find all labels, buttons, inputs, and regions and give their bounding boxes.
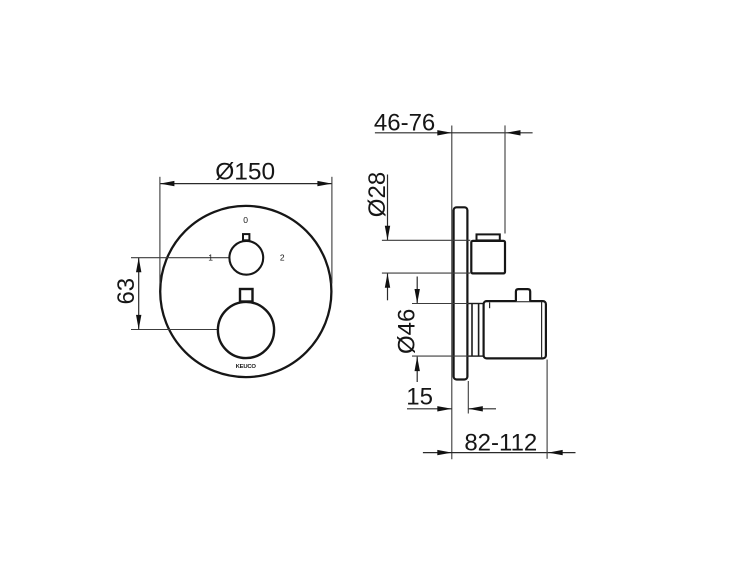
dimension 82-112 right arrow (548, 450, 563, 455)
dimension 63 line (138, 258, 140, 330)
side view: volume knob body (484, 301, 546, 358)
dimension 15 extension line at plate face (467, 381, 469, 414)
side view: volume knob neck ring line 1 (471, 304, 473, 357)
front view: escutcheon plate circle Ø150 (160, 206, 331, 377)
dimension Ø28 down arrow (385, 226, 390, 241)
svg-text:63: 63 (113, 278, 140, 305)
thermostat knob (small top circle) (229, 241, 263, 275)
dimension Ø28 line lower segment (387, 273, 389, 300)
side view: thermostat knob front lip (477, 234, 500, 240)
side view: thermostat knob body (471, 241, 505, 274)
svg-text:2: 2 (280, 253, 285, 263)
dimension Ø28 bottom extension line (382, 272, 470, 274)
dimension Ø46 up arrow (415, 357, 420, 372)
dimension Ø46 down arrow (415, 289, 420, 304)
dimension Ø28 up arrow (385, 273, 390, 288)
dimension 15 left arrow (437, 406, 452, 411)
side view: volume knob indicator tab (516, 289, 530, 301)
dimension 15 left tail line (407, 408, 452, 410)
dimension 46-76 left arrow (437, 130, 452, 135)
centerline through volume knob (ext line for 63) (131, 329, 246, 331)
side view: wall line (451, 126, 453, 460)
side view: volume knob neck bottom edge (469, 355, 485, 357)
svg-text:0: 0 (243, 215, 248, 225)
svg-text:Ø28: Ø28 (364, 172, 391, 217)
dimension 15 right tail line (468, 408, 496, 410)
svg-text:15: 15 (406, 383, 433, 410)
dimension 46-76 right arrow (506, 130, 521, 135)
side view: volume knob seam tick (489, 302, 491, 308)
volume knob indicator tab (240, 289, 253, 302)
dimension 82-112 left arrow (437, 450, 452, 455)
dimension Ø46 line upper segment (416, 277, 418, 304)
dimension Ø28 top extension line (382, 239, 470, 241)
dimension 63 up arrow (136, 258, 141, 273)
dimension Ø150 line (160, 183, 332, 185)
dimension 15 right arrow (468, 406, 483, 411)
dimension Ø28 line upper segment (387, 175, 389, 241)
svg-text:Ø46: Ø46 (394, 309, 421, 354)
dimension Ø150 left arrow (160, 181, 175, 186)
dimension Ø150 right arrow (317, 181, 332, 186)
svg-text:KEUCO: KEUCO (236, 364, 257, 370)
svg-text:1: 1 (208, 253, 213, 263)
dimension Ø46 line lower segment (416, 357, 418, 382)
dimension Ø150 right extension line (331, 177, 333, 284)
dimension Ø150 left extension line (159, 177, 161, 284)
side view: volume knob neck top edge (469, 303, 485, 305)
dimension 46-76 line (375, 132, 533, 134)
dimension 63 down arrow (136, 315, 141, 330)
dimension 46-76 extension line at knob face (504, 125, 506, 233)
centerline through thermostat knob (ext line for 63) (131, 257, 246, 259)
volume control knob (big bottom circle) (218, 302, 274, 358)
side view: volume knob end-cap parting line (541, 302, 543, 359)
dimension 82-112 right extension line at knob face (546, 360, 548, 459)
thermostat knob indicator tab (243, 234, 249, 240)
side view: escutcheon plate (454, 207, 468, 379)
side view: volume knob neck ring line 2 (478, 304, 480, 357)
dimension Ø46 bottom extension line (412, 355, 469, 357)
svg-text:Ø150: Ø150 (215, 158, 275, 185)
dimension 82-112 line (423, 452, 576, 454)
dimension Ø46 top extension line (412, 303, 469, 305)
